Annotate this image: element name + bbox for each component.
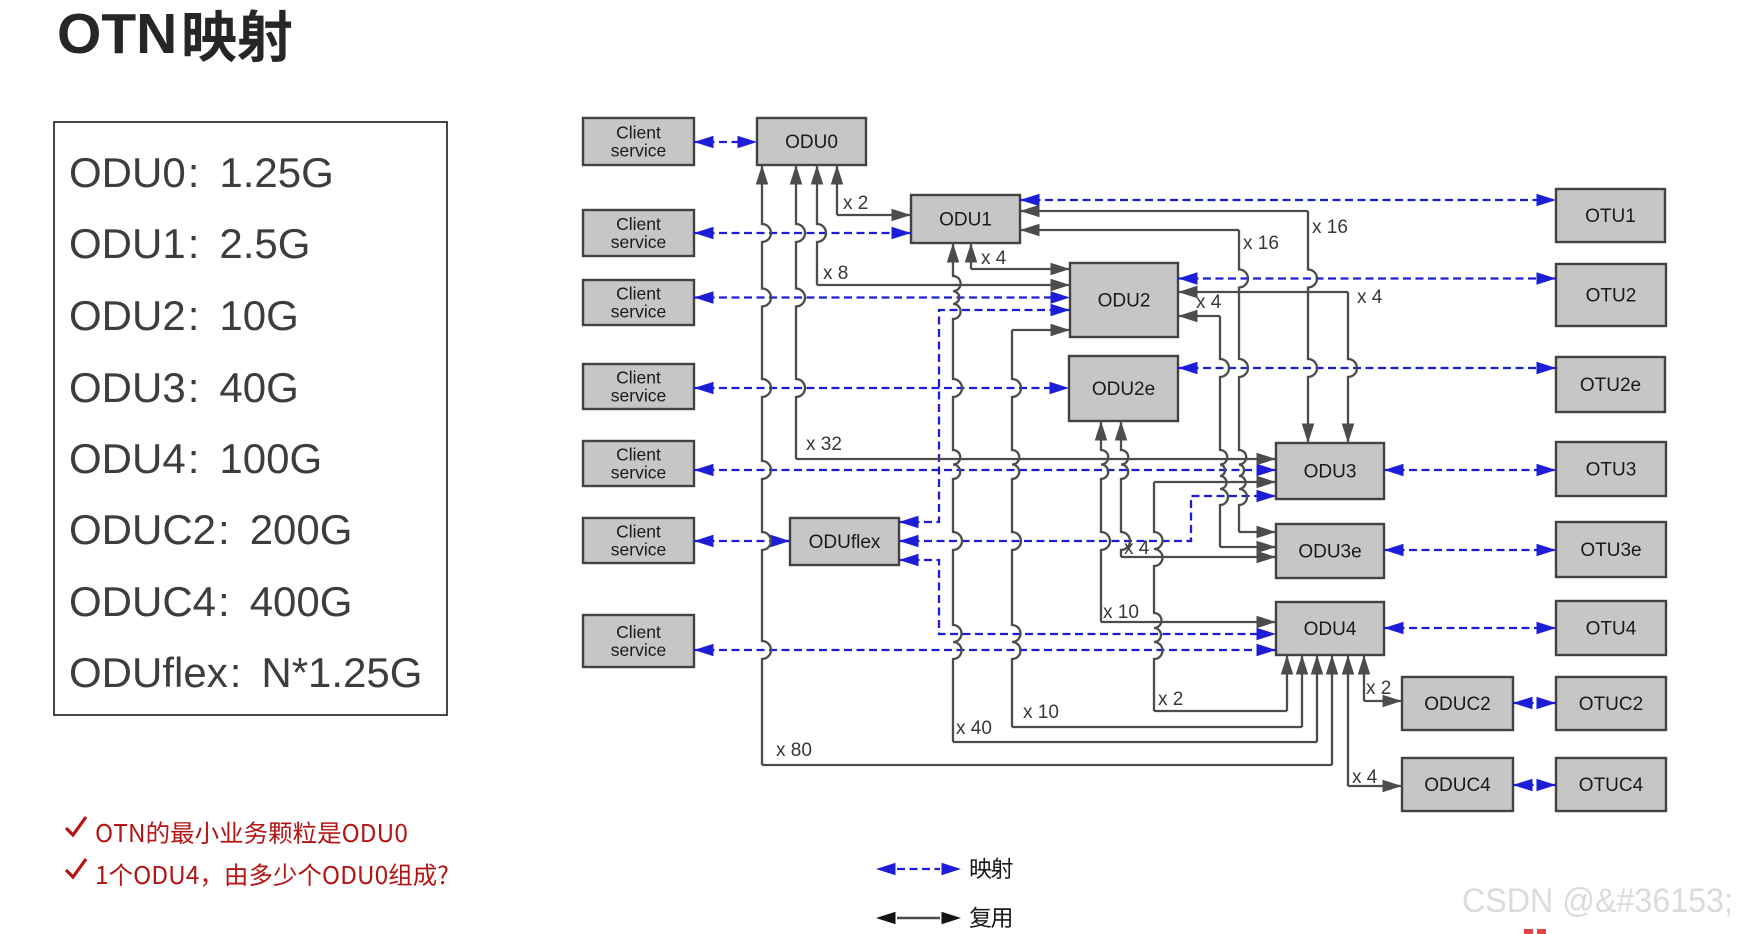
svg-text:ODU0: ODU0 <box>785 132 838 153</box>
svg-text:x 2: x 2 <box>1366 678 1391 699</box>
svg-text:ODUC2: ODUC2 <box>1424 694 1491 715</box>
svg-text:x 10: x 10 <box>1103 602 1139 623</box>
svg-text:ODUflex: ODUflex <box>809 532 881 553</box>
svg-text:OTU3: OTU3 <box>1586 460 1637 481</box>
svg-text:OTUC2: OTUC2 <box>1579 694 1643 715</box>
svg-text:service: service <box>611 302 666 322</box>
svg-text:Client: Client <box>616 368 661 388</box>
svg-text:service: service <box>611 463 666 483</box>
svg-text:Client: Client <box>616 214 661 234</box>
svg-text:ODU2: ODU2 <box>1098 291 1151 312</box>
svg-text:x 2: x 2 <box>1158 689 1183 710</box>
svg-text:ODU1: ODU1 <box>939 210 992 231</box>
svg-text:CSDN @&#36153;: CSDN @&#36153; <box>1462 882 1733 920</box>
svg-text:x 4: x 4 <box>1352 767 1378 788</box>
svg-text:OTU2: OTU2 <box>1586 286 1637 307</box>
svg-text:Client: Client <box>616 284 661 304</box>
svg-text:ODU2:10G: ODU2:10G <box>69 292 299 339</box>
svg-text:x 80: x 80 <box>776 740 812 761</box>
svg-text:Client: Client <box>616 445 661 465</box>
svg-text:x 10: x 10 <box>1023 702 1059 723</box>
svg-text:x 4: x 4 <box>1196 292 1222 313</box>
svg-text:x 4: x 4 <box>1124 538 1150 559</box>
svg-text:x 8: x 8 <box>823 263 848 284</box>
svg-text:ODU3: ODU3 <box>1304 462 1357 483</box>
svg-text:Client: Client <box>616 123 661 143</box>
svg-text:OTU1: OTU1 <box>1585 206 1636 227</box>
svg-text:ODU3:40G: ODU3:40G <box>69 364 299 411</box>
svg-text:ODUC2:200G: ODUC2:200G <box>69 506 352 553</box>
svg-text:ODUC4: ODUC4 <box>1424 775 1491 796</box>
svg-text:ODUC4:400G: ODUC4:400G <box>69 578 352 625</box>
svg-text:service: service <box>611 540 666 560</box>
svg-text:x 16: x 16 <box>1312 217 1348 238</box>
svg-text:x 2: x 2 <box>843 193 868 214</box>
svg-text:x 4: x 4 <box>1357 287 1383 308</box>
svg-text:service: service <box>611 386 666 406</box>
svg-text:OTU3e: OTU3e <box>1580 540 1641 561</box>
svg-text:x 16: x 16 <box>1243 233 1279 254</box>
svg-text:x 40: x 40 <box>956 718 992 739</box>
svg-text:x 4: x 4 <box>981 248 1007 269</box>
svg-text:ODU4:100G: ODU4:100G <box>69 435 322 482</box>
svg-text:service: service <box>611 640 666 660</box>
svg-text:ODU2e: ODU2e <box>1092 379 1155 400</box>
svg-text:ODU1:2.5G: ODU1:2.5G <box>69 220 310 267</box>
svg-text:Client: Client <box>616 522 661 542</box>
svg-text:service: service <box>611 232 666 252</box>
svg-text:OTU4: OTU4 <box>1586 619 1637 640</box>
svg-text:service: service <box>611 141 666 161</box>
svg-text:ODU3e: ODU3e <box>1298 542 1361 563</box>
svg-text:ODU4: ODU4 <box>1304 619 1357 640</box>
svg-text:OTU2e: OTU2e <box>1580 375 1641 396</box>
svg-text:Client: Client <box>616 622 661 642</box>
svg-text:x 32: x 32 <box>806 434 842 455</box>
svg-text:OTN: OTN <box>57 2 177 66</box>
svg-text:OTUC4: OTUC4 <box>1579 775 1644 796</box>
